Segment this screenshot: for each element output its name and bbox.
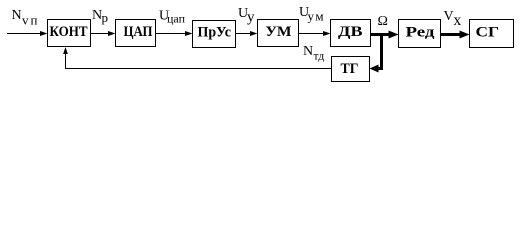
wire Ред to СГ (thick) xyxy=(441,33,462,36)
block Ред (reducer) xyxy=(399,20,441,48)
svg-text:ЦАП: ЦАП xyxy=(124,24,153,40)
wire ПрУс to УМ xyxy=(236,33,252,35)
block СГ xyxy=(470,20,514,48)
svg-text:vп: vп xyxy=(22,13,39,28)
wire input to КОНТ xyxy=(7,33,41,35)
svg-text:ум: ум xyxy=(308,9,326,24)
svg-text:УМ: УМ xyxy=(266,24,292,40)
wire ДВ to Ред (thick) xyxy=(371,33,391,36)
block УМ (power amplifier) xyxy=(258,20,299,47)
svg-text:ТГ: ТГ xyxy=(341,61,359,77)
svg-text:Ред: Ред xyxy=(406,25,436,41)
svg-text:ДВ: ДВ xyxy=(338,24,363,40)
block ТГ (tachogenerator) xyxy=(332,57,370,82)
block ЦАП (DAC) xyxy=(116,20,156,47)
wire УМ to ДВ xyxy=(299,33,325,35)
svg-text:у: у xyxy=(247,10,255,26)
svg-text:х: х xyxy=(454,12,462,29)
svg-text:N: N xyxy=(12,8,22,23)
wire КОНТ to ЦАП xyxy=(91,33,110,35)
svg-text:Ω: Ω xyxy=(378,14,388,29)
svg-text:р: р xyxy=(102,10,109,25)
wire ЦАП to ПрУс xyxy=(156,33,187,35)
svg-text:КОНТ: КОНТ xyxy=(50,24,88,40)
block ПрУс (preamplifier) xyxy=(193,21,236,48)
svg-text:СГ: СГ xyxy=(476,25,500,41)
svg-text:N: N xyxy=(303,44,313,59)
block ДВ (motor) xyxy=(331,20,371,47)
wire ТГ feedback to КОНТ xyxy=(66,53,332,69)
svg-text:тд: тд xyxy=(314,51,325,63)
svg-text:ПрУс: ПрУс xyxy=(198,25,232,41)
svg-text:цап: цап xyxy=(167,12,186,26)
block КОНТ (controller) xyxy=(48,20,91,47)
junction on ДВ-Ред wire, thick drop to ТГ xyxy=(378,33,382,69)
svg-text:V: V xyxy=(444,9,454,24)
